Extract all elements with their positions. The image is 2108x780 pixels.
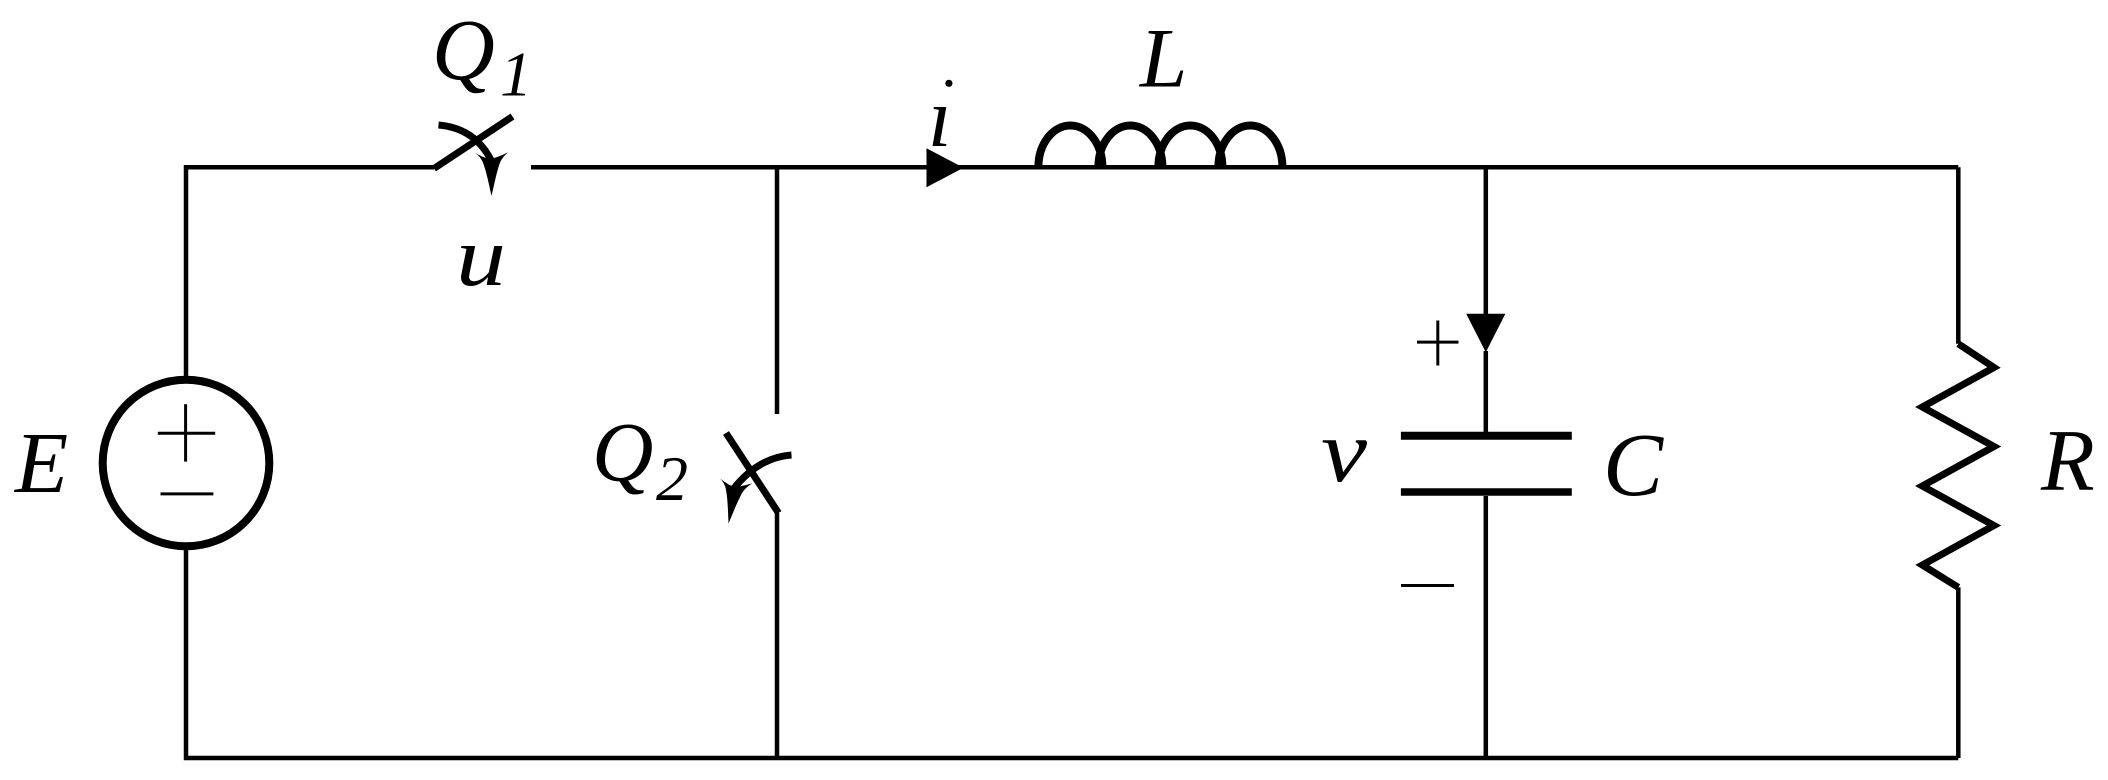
- svg-text:R: R: [2040, 413, 2095, 510]
- svg-text:Q: Q: [592, 406, 653, 500]
- svg-text:2: 2: [656, 443, 688, 514]
- svg-text:Q: Q: [432, 1, 495, 98]
- svg-text:E: E: [13, 414, 68, 511]
- svg-text:1: 1: [500, 39, 532, 110]
- svg-text:u: u: [456, 210, 506, 304]
- svg-text:v: v: [1321, 403, 1368, 501]
- svg-text:L: L: [1139, 12, 1187, 106]
- svg-text:C: C: [1603, 416, 1664, 515]
